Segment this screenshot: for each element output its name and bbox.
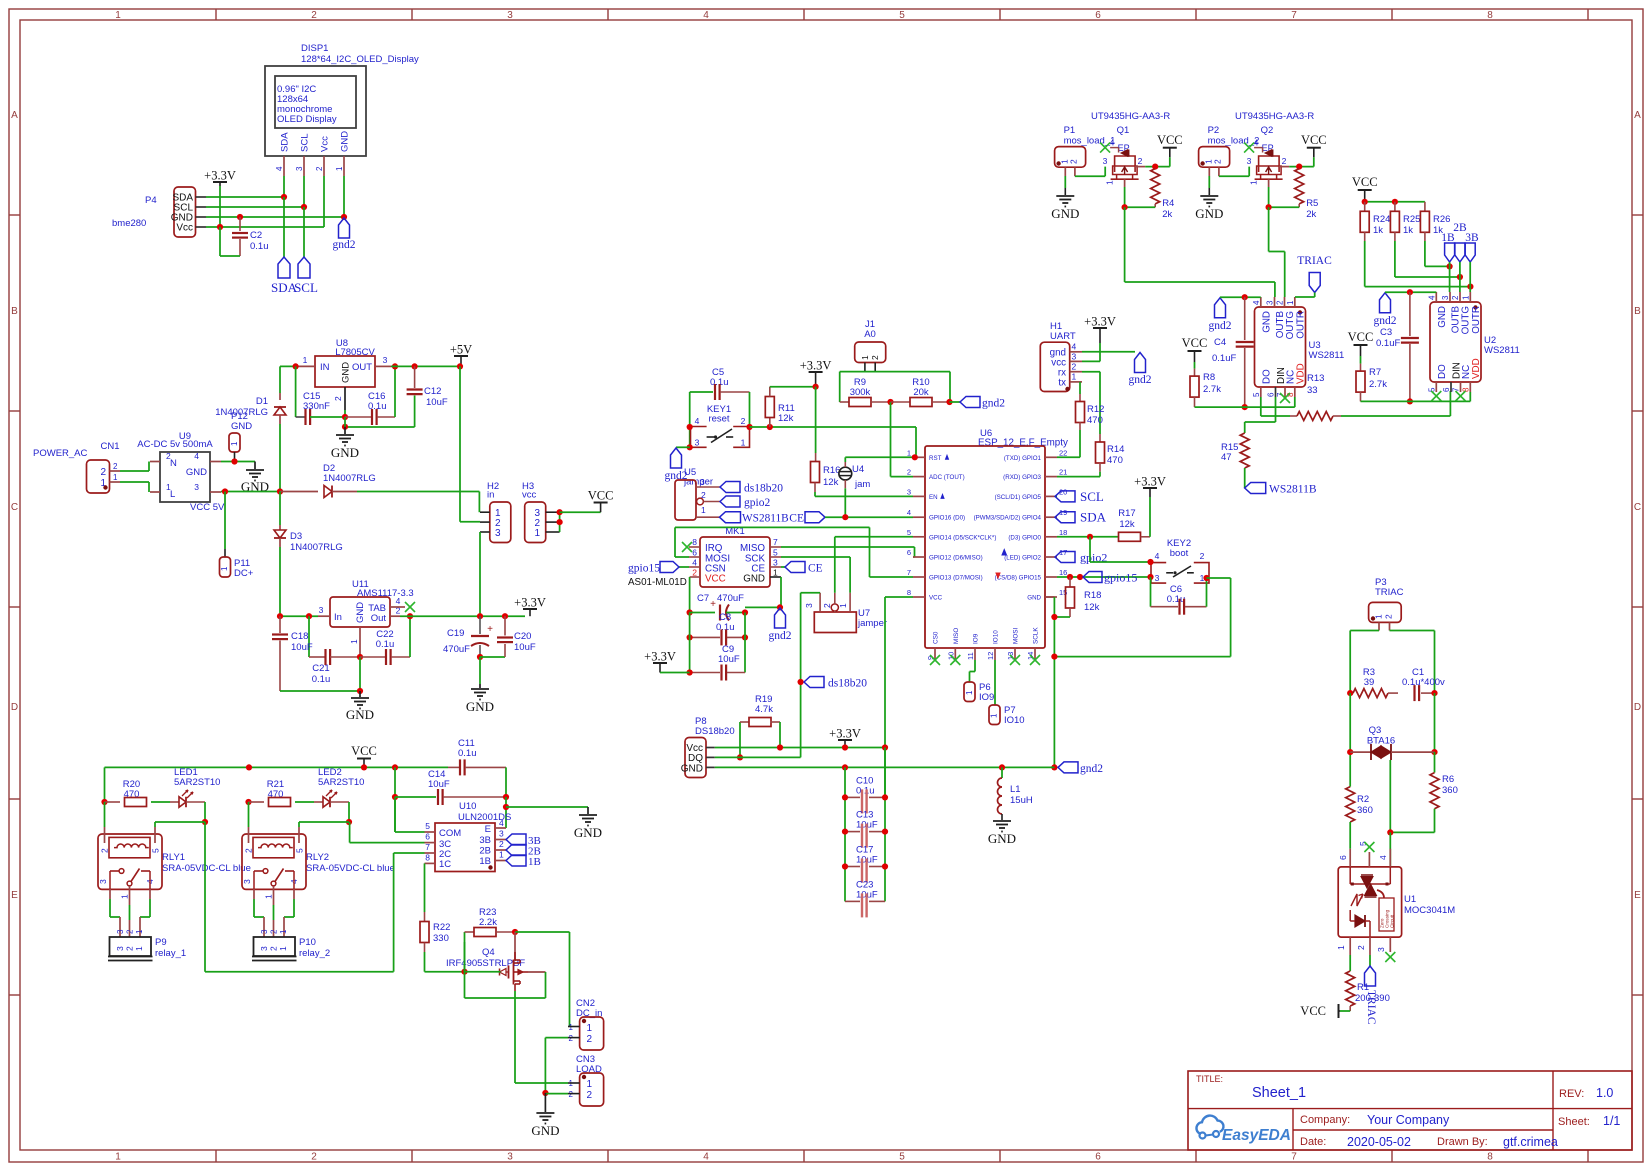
- wire SCL down to flag: [303, 207, 305, 257]
- wire H3 pins tied: [559, 512, 561, 532]
- wire 3B to U2 OUTR: [1469, 262, 1471, 292]
- svg-text:8: 8: [1461, 387, 1470, 392]
- wire C12 return to GND node: [345, 426, 415, 428]
- wire C21 drop: [308, 616, 310, 657]
- svg-text:2: 2: [311, 1152, 317, 1163]
- wire +5V down to H2: [459, 366, 461, 521]
- wire R7/C3/VDD line U2: [1361, 400, 1471, 402]
- svg-text:0.1uF: 0.1uF: [1212, 353, 1236, 364]
- junction D3/C18: [277, 613, 283, 619]
- svg-text:A: A: [1634, 110, 1641, 121]
- svg-text:6: 6: [692, 548, 697, 558]
- svg-text:IO9: IO9: [979, 692, 994, 703]
- svg-text:+3.3V: +3.3V: [1134, 475, 1166, 489]
- svg-text:470uF: 470uF: [443, 644, 470, 655]
- svg-text:5: 5: [899, 1152, 905, 1163]
- svg-text:GND: GND: [466, 699, 494, 714]
- wire pin4 down to U1: [1389, 832, 1391, 867]
- svg-text:VCC: VCC: [351, 744, 377, 758]
- wire VCC left drop to R20: [104, 767, 106, 802]
- svg-text:VCC: VCC: [588, 489, 614, 503]
- svg-text:OUTR: OUTR: [1471, 306, 1482, 334]
- svg-text:4: 4: [1155, 551, 1160, 561]
- Q4 gate wire: [465, 971, 501, 973]
- svg-text:3: 3: [98, 879, 108, 884]
- svg-text:(TXD) GPIO1: (TXD) GPIO1: [1004, 455, 1042, 462]
- ground GND P2: [1200, 195, 1218, 197]
- svg-text:10uF: 10uF: [428, 779, 450, 790]
- svg-text:7: 7: [425, 842, 430, 852]
- svg-text:gnd2: gnd2: [333, 239, 356, 251]
- svg-text:R6: R6: [1442, 774, 1454, 785]
- wire CN2 pin2 to gnd: [545, 1037, 568, 1039]
- U3 pin 8 VDD: [1294, 387, 1296, 397]
- svg-text:SCLK: SCLK: [1033, 627, 1040, 644]
- U3 pin 1 OUTR: [1294, 297, 1296, 307]
- svg-text:1/1: 1/1: [1603, 1114, 1620, 1128]
- P3 pin2 lead: [1389, 622, 1391, 630]
- svg-text:2: 2: [1138, 156, 1143, 166]
- U2 pin 5 DO: [1435, 382, 1437, 392]
- junction C12 top: [412, 363, 418, 369]
- svg-text:N: N: [170, 458, 177, 469]
- wire VCC rail to COM drop: [394, 767, 396, 832]
- svg-text:3: 3: [907, 487, 911, 496]
- MK1 pin8 IRQ no-connect: [689, 546, 700, 548]
- svg-text:VDD: VDD: [1471, 358, 1482, 379]
- svg-text:1: 1: [1249, 180, 1259, 185]
- wire SDA P4 to DISP1: [206, 196, 284, 198]
- junction Q3 left: [1347, 749, 1353, 755]
- svg-text:6: 6: [1267, 392, 1276, 397]
- svg-text:GND: GND: [186, 467, 207, 478]
- svg-text:EasyEDA: EasyEDA: [1222, 1127, 1291, 1144]
- wire RST line: [845, 456, 915, 458]
- svg-text:Sheet:: Sheet:: [1558, 1116, 1590, 1128]
- junction OUT/C16: [392, 363, 398, 369]
- EasyEDA logo: [1196, 1116, 1223, 1134]
- svg-text:2: 2: [315, 166, 324, 171]
- svg-text:15uH: 15uH: [1010, 795, 1033, 806]
- svg-text:POWER_AC: POWER_AC: [33, 448, 88, 459]
- svg-text:gnd2: gnd2: [1374, 315, 1397, 327]
- svg-text:MISO: MISO: [953, 628, 960, 644]
- svg-text:3: 3: [495, 528, 501, 539]
- svg-text:330: 330: [433, 933, 449, 944]
- svg-text:L1: L1: [1010, 784, 1021, 795]
- wire KEY1 pin2 to RST: [750, 426, 917, 428]
- svg-text:VCC: VCC: [929, 595, 943, 602]
- P1 pin2 wire: [1074, 167, 1076, 176]
- wire U9 VCC5V output: [221, 491, 280, 493]
- svg-text:6: 6: [907, 548, 911, 557]
- connector P6 IO9: [964, 682, 975, 702]
- svg-text:boot: boot: [1170, 548, 1189, 559]
- svg-text:GND: GND: [346, 707, 374, 722]
- svg-text:R14: R14: [1107, 444, 1124, 455]
- svg-text:470uF: 470uF: [717, 593, 744, 604]
- svg-text:C2: C2: [250, 230, 262, 241]
- junction GND pin2 / C15-C16: [342, 414, 348, 420]
- svg-text:Q1: Q1: [1117, 125, 1130, 136]
- svg-text:3: 3: [115, 946, 125, 951]
- svg-text:4: 4: [1427, 295, 1436, 300]
- wire LED1 cathode down: [204, 802, 206, 822]
- net flag gnd2 KEY1: [671, 448, 682, 468]
- svg-text:2: 2: [569, 1090, 574, 1099]
- svg-text:2: 2: [113, 462, 118, 471]
- svg-text:1: 1: [587, 1023, 593, 1034]
- svg-text:2: 2: [126, 929, 135, 934]
- svg-text:C19: C19: [447, 628, 464, 639]
- svg-text:(SCL/D1) GPIO5: (SCL/D1) GPIO5: [995, 494, 1042, 501]
- wire KEY2 pin3 to C6: [1150, 577, 1152, 607]
- wire H2 pin3 to +3.3V rail: [479, 532, 481, 616]
- junction R9/R10 ADC: [887, 399, 893, 405]
- svg-text:VCC: VCC: [1182, 336, 1208, 350]
- wire H1 gnd to flag: [1082, 351, 1135, 353]
- Q4 drain loop: [528, 971, 546, 973]
- wire to E pin and GND: [505, 797, 507, 828]
- svg-text:1: 1: [115, 10, 121, 21]
- P1 pin1 to GND: [1064, 167, 1066, 176]
- svg-text:4: 4: [1378, 855, 1388, 860]
- net flag gnd2 MK1: [775, 608, 786, 628]
- wire KEY1 pin3 to gnd2 flag: [676, 446, 690, 448]
- svg-text:GND: GND: [681, 764, 703, 775]
- junction KEY2 pin4: [1147, 559, 1153, 565]
- U11 pin3 lead: [318, 615, 330, 617]
- svg-text:1: 1: [135, 929, 144, 934]
- svg-text:P4: P4: [145, 195, 157, 206]
- U11 pin4 TAB lead + no-connect: [390, 606, 405, 608]
- junction gnd2 MK1: [777, 604, 783, 610]
- junction D1/D3/main: [277, 488, 283, 494]
- junction GND rail: [357, 688, 363, 694]
- U1 arrow symbol: [1351, 894, 1363, 906]
- junction C4 top: [1242, 294, 1248, 300]
- net flag gpio2 U5: [720, 496, 740, 507]
- U3 pin 2 OUTG: [1284, 297, 1286, 307]
- svg-text:C20: C20: [514, 631, 531, 642]
- svg-text:2: 2: [1451, 295, 1460, 300]
- wire R14 to ESP RXD: [1057, 476, 1100, 478]
- wire P3 pin1 left rail: [1350, 630, 1379, 632]
- svg-text:C12: C12: [424, 386, 441, 397]
- junction SCL: [301, 204, 307, 210]
- wire 2B to U2 OUTG: [1459, 262, 1461, 292]
- svg-text:gnd2: gnd2: [1080, 763, 1103, 775]
- svg-text:L: L: [170, 489, 175, 500]
- svg-text:3: 3: [1103, 156, 1108, 166]
- junction R23 right / Q4 top: [512, 929, 518, 935]
- connector P9 relay_1: [110, 937, 152, 956]
- svg-text:CE: CE: [789, 513, 804, 525]
- svg-text:1: 1: [860, 355, 870, 360]
- junction R19 left DQ: [737, 754, 743, 760]
- svg-text:1: 1: [303, 355, 308, 365]
- svg-text:C3: C3: [1380, 327, 1392, 338]
- wire P8 DQ: [715, 756, 801, 758]
- svg-text:1: 1: [349, 639, 359, 644]
- svg-text:SRA-05VDC-CL blue: SRA-05VDC-CL blue: [306, 863, 395, 874]
- U8 pin3 lead: [375, 365, 391, 367]
- svg-text:AC-DC 5v 500mA: AC-DC 5v 500mA: [137, 439, 213, 450]
- svg-text:DS18b20: DS18b20: [695, 726, 735, 737]
- svg-text:2: 2: [587, 1034, 593, 1045]
- wire KEY2 pin1 to gnd loop: [1207, 577, 1231, 579]
- net flag 2B: [506, 845, 526, 856]
- svg-text:4: 4: [499, 818, 504, 828]
- svg-text:2: 2: [311, 10, 317, 21]
- svg-text:(CS/D8) GPIO15: (CS/D8) GPIO15: [995, 575, 1042, 582]
- svg-text:R2: R2: [1357, 794, 1369, 805]
- wire C15 drop: [295, 366, 297, 417]
- svg-text:128*64_I2C_OLED_Display: 128*64_I2C_OLED_Display: [301, 54, 419, 65]
- junction RLY2 pin5: [346, 819, 352, 825]
- svg-text:2: 2: [1384, 614, 1394, 619]
- svg-text:WS2811B: WS2811B: [742, 513, 789, 525]
- wire Q1 gate to U3 OUTB: [1124, 207, 1126, 282]
- wire C22 up to Out: [409, 616, 411, 657]
- junction C1 right: [1431, 690, 1437, 696]
- junction KEY1 pin3: [687, 444, 693, 450]
- svg-text:R13: R13: [1307, 373, 1324, 384]
- svg-text:Vcc: Vcc: [320, 136, 331, 152]
- svg-text:C: C: [1634, 502, 1641, 513]
- svg-text:1: 1: [587, 1079, 593, 1090]
- svg-text:R8: R8: [1203, 372, 1215, 383]
- svg-text:A: A: [11, 110, 18, 121]
- junction COM drop: [392, 764, 398, 770]
- svg-text:vcc: vcc: [522, 490, 537, 501]
- U2 pin 6 DIN: [1450, 382, 1452, 392]
- svg-text:4: 4: [1254, 138, 1259, 148]
- svg-text:1N4007RLG: 1N4007RLG: [215, 407, 268, 418]
- svg-text:0.1u: 0.1u: [312, 674, 331, 685]
- svg-text:D: D: [1634, 702, 1641, 713]
- svg-text:reset: reset: [708, 414, 729, 425]
- net flag ds18b20 U5: [720, 482, 740, 493]
- U8 pin1 lead: [297, 365, 315, 367]
- svg-text:2.2k: 2.2k: [479, 917, 497, 928]
- svg-text:330nF: 330nF: [303, 401, 330, 412]
- junction SDA: [281, 194, 287, 200]
- svg-text:1: 1: [838, 603, 848, 608]
- svg-text:VCC: VCC: [1300, 1004, 1326, 1018]
- junction KEY1 pin4: [687, 424, 693, 430]
- junction C4 bottom: [1242, 404, 1248, 410]
- svg-text:4: 4: [1110, 138, 1115, 148]
- wire U8 IN from D1: [280, 365, 297, 367]
- wire GND down: [359, 657, 361, 691]
- svg-text:OUT: OUT: [352, 362, 372, 373]
- svg-text:+3.3V: +3.3V: [1084, 315, 1116, 329]
- U11 pin1 GND lead: [359, 627, 361, 657]
- svg-text:Circuit: Circuit: [1390, 914, 1395, 928]
- svg-text:CN1: CN1: [100, 441, 119, 452]
- wire GPIO0 down to KEY2: [1089, 537, 1091, 562]
- svg-text:P10: P10: [299, 937, 316, 948]
- svg-text:0.1uF: 0.1uF: [1376, 338, 1400, 349]
- wire C6 right up to KEY2 pin1: [1206, 578, 1208, 607]
- junction P12/GND: [231, 458, 237, 464]
- ground GND under U8: [344, 427, 346, 434]
- svg-text:0.1u: 0.1u: [376, 639, 395, 650]
- svg-text:GPIO13 (D7/MOSI): GPIO13 (D7/MOSI): [929, 575, 983, 582]
- net flag gnd2 U2: [1380, 293, 1391, 313]
- svg-text:+3.3V: +3.3V: [829, 727, 861, 741]
- net flag SDA: [278, 257, 290, 278]
- net flag gnd2 ESP: [1051, 764, 1057, 770]
- svg-text:(PWM3/SDA/D2) GPIO4: (PWM3/SDA/D2) GPIO4: [974, 515, 1042, 522]
- net flag gnd2 R10: [960, 397, 980, 408]
- svg-text:2: 2: [870, 355, 880, 360]
- svg-text:1: 1: [113, 473, 118, 482]
- RLY2 pin3 lead down: [253, 871, 255, 889]
- U11 pin2 Out lead: [390, 615, 400, 617]
- svg-text:GND: GND: [574, 825, 602, 840]
- svg-text:R12: R12: [1087, 404, 1104, 415]
- junction H3 pin2: [557, 519, 563, 525]
- junction C14 left: [392, 794, 398, 800]
- net flag gpio2 ESP: [1055, 552, 1075, 563]
- svg-text:(RXD) GPIO3: (RXD) GPIO3: [1003, 474, 1041, 481]
- junction C21 drop: [306, 613, 312, 619]
- svg-text:2: 2: [1069, 159, 1079, 164]
- svg-text:1.0: 1.0: [1596, 1086, 1613, 1100]
- svg-text:1: 1: [1374, 614, 1384, 619]
- MK1 pin4 CSN to gpio15: [689, 566, 700, 568]
- wire gpio15 line: [1057, 576, 1151, 578]
- svg-text:8: 8: [425, 853, 430, 863]
- svg-text:R5: R5: [1306, 198, 1318, 209]
- junction R22/R23/Q4 gate: [461, 969, 467, 975]
- svg-text:3: 3: [507, 10, 513, 21]
- svg-text:SCL: SCL: [300, 134, 311, 152]
- svg-text:R26: R26: [1433, 214, 1450, 225]
- wire GND P4 to DISP1: [206, 216, 344, 218]
- net flag 3B: [506, 834, 526, 845]
- connector P11 DC+: [220, 557, 231, 577]
- svg-text:3: 3: [1441, 295, 1450, 300]
- svg-text:SDA: SDA: [280, 132, 291, 152]
- svg-text:2B: 2B: [479, 846, 491, 857]
- net flag ds18b20 lower: [798, 679, 804, 685]
- svg-text:10uF: 10uF: [718, 654, 740, 665]
- U2 pin 4 GND: [1435, 292, 1437, 302]
- net flag SCL: [1055, 495, 1057, 497]
- wire C11 corner down: [505, 767, 507, 797]
- wire C2 return to +3.3V: [219, 227, 221, 256]
- svg-text:7: 7: [907, 568, 911, 577]
- wire Q2 gate to U3 OUTG: [1268, 207, 1270, 251]
- svg-text:C21: C21: [312, 663, 329, 674]
- net flag SDA: [1055, 512, 1075, 523]
- svg-text:ADC (TOUT): ADC (TOUT): [929, 474, 965, 481]
- junction R10 right: [946, 399, 952, 405]
- svg-text:4: 4: [907, 508, 911, 517]
- capacitor C2: [239, 217, 241, 231]
- svg-text:1: 1: [907, 448, 911, 457]
- svg-text:DQ: DQ: [688, 753, 703, 764]
- svg-text:UT9435HG-AA3-R: UT9435HG-AA3-R: [1235, 111, 1314, 122]
- svg-text:3: 3: [259, 946, 269, 951]
- svg-text:10uF: 10uF: [291, 642, 313, 653]
- U1 pin6 lead: [1349, 849, 1351, 867]
- svg-text:In: In: [334, 612, 342, 623]
- svg-text:DISP1: DISP1: [301, 43, 328, 54]
- svg-text:4: 4: [692, 558, 697, 568]
- svg-text:Q3: Q3: [1369, 725, 1382, 736]
- svg-text:R24: R24: [1373, 214, 1390, 225]
- svg-text:21: 21: [1059, 468, 1067, 477]
- svg-text:1: 1: [741, 438, 746, 448]
- ground GND P1: [1056, 195, 1074, 197]
- svg-text:5AR2ST10: 5AR2ST10: [318, 777, 364, 788]
- svg-text:1: 1: [534, 528, 540, 539]
- svg-text:12k: 12k: [778, 413, 794, 424]
- wire 1B to U2 OUTB: [1449, 262, 1451, 292]
- net flag gnd2 U3: [1215, 298, 1226, 318]
- svg-text:D: D: [11, 702, 18, 713]
- wire J1 rail: [840, 371, 950, 373]
- svg-text:3: 3: [804, 603, 814, 608]
- junction Q3 right: [1431, 749, 1437, 755]
- svg-text:2: 2: [244, 848, 254, 853]
- svg-text:gtf.crimea: gtf.crimea: [1503, 1135, 1558, 1149]
- svg-text:(LED) GPIO2: (LED) GPIO2: [1004, 555, 1041, 562]
- junction R3 left: [1347, 690, 1353, 696]
- U2 pin 7 NC: [1460, 382, 1462, 392]
- svg-text:2: 2: [125, 946, 135, 951]
- RLY2 pin1 lead down: [273, 886, 275, 905]
- svg-text:2: 2: [569, 1034, 574, 1043]
- svg-text:4: 4: [695, 416, 700, 426]
- svg-text:1: 1: [701, 505, 706, 515]
- svg-text:1N4007RLG: 1N4007RLG: [290, 542, 343, 553]
- svg-text:2: 2: [1276, 300, 1285, 305]
- svg-text:4: 4: [703, 10, 709, 21]
- svg-text:10uF: 10uF: [514, 642, 536, 653]
- svg-text:(D3) GPIO0: (D3) GPIO0: [1008, 534, 1041, 541]
- svg-text:1B: 1B: [528, 856, 541, 868]
- junction CE/U4/GPIO16: [842, 514, 848, 520]
- svg-text:P9: P9: [155, 937, 167, 948]
- svg-text:VCC: VCC: [1348, 330, 1374, 344]
- wire SCL P4 to DISP1: [206, 206, 304, 208]
- junction 3B line: [1467, 284, 1473, 290]
- wire to RLY1 pin5: [155, 821, 205, 823]
- svg-text:Q4: Q4: [482, 947, 495, 958]
- P2 pin2 wire: [1218, 167, 1220, 176]
- junction +3.3V R11: [813, 384, 819, 390]
- wire VCC to RLY2 pin2: [248, 802, 250, 827]
- U1 pin5 no-connect: [1368, 852, 1370, 867]
- svg-text:C4: C4: [1214, 337, 1226, 348]
- ground GND right of U10: [587, 807, 589, 814]
- svg-text:12k: 12k: [823, 477, 839, 488]
- junction C3 top: [1407, 289, 1413, 295]
- svg-text:360: 360: [1357, 805, 1373, 816]
- junction Out/C22: [407, 613, 413, 619]
- svg-text:C18: C18: [291, 631, 308, 642]
- svg-text:1: 1: [773, 568, 778, 578]
- svg-text:22: 22: [1059, 448, 1067, 457]
- svg-text:1k: 1k: [1403, 225, 1413, 236]
- wire COM up to VCC: [395, 831, 425, 833]
- svg-text:VCC 5V: VCC 5V: [190, 502, 225, 513]
